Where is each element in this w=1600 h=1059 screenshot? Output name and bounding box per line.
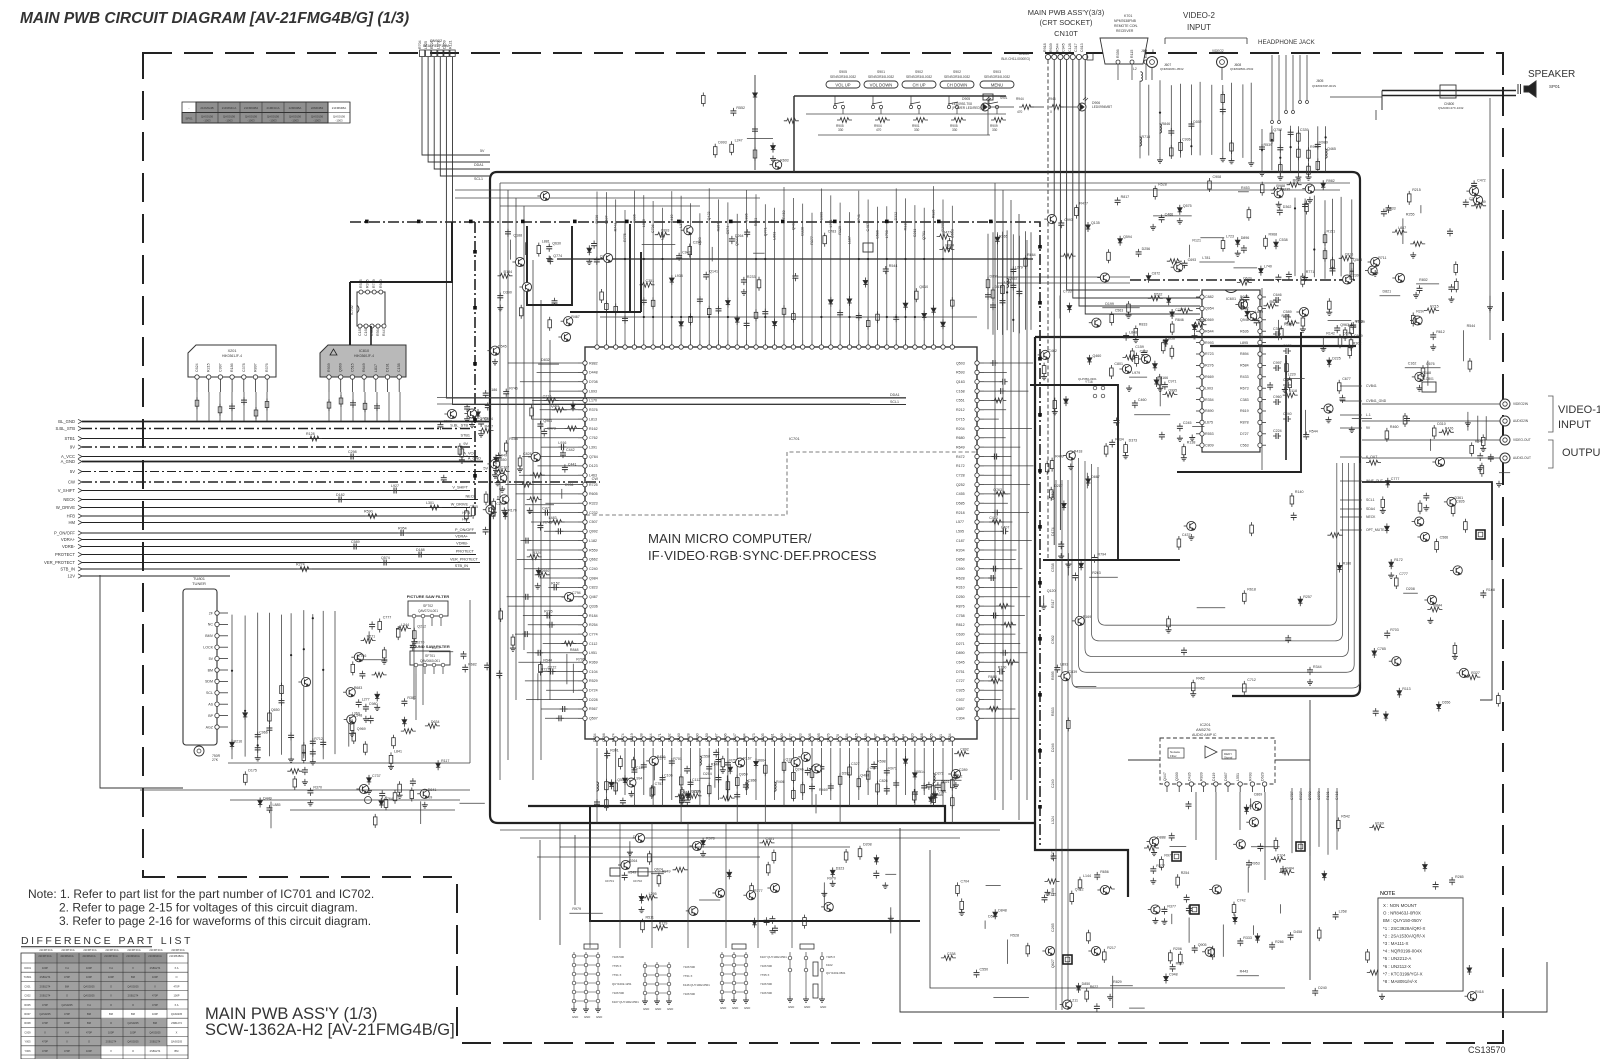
svg-text:C908: C908 xyxy=(1213,175,1222,179)
resistor R819 xyxy=(535,572,550,577)
transistor Q747 xyxy=(1271,189,1283,198)
svg-text:C589: C589 xyxy=(351,540,360,544)
resistor R608 xyxy=(1337,380,1341,394)
resistor R230 xyxy=(1327,533,1342,538)
svg-text:C186: C186 xyxy=(489,388,498,392)
capacitor C380 xyxy=(320,739,326,747)
wire xyxy=(541,708,578,710)
main bus outline xyxy=(490,172,1360,897)
wire xyxy=(984,605,1015,607)
capacitor C222 xyxy=(762,309,768,317)
resistor R804 xyxy=(1297,130,1301,144)
wire xyxy=(415,674,417,720)
svg-text:C558: C558 xyxy=(701,754,710,758)
diode D181 xyxy=(243,710,247,720)
svg-text:R829: R829 xyxy=(1113,980,1122,984)
wire xyxy=(1285,355,1287,460)
resistor R130 xyxy=(495,469,510,474)
svg-text:330: 330 xyxy=(952,128,958,132)
svg-text:C966: C966 xyxy=(259,731,268,735)
capacitor C871 xyxy=(505,229,511,237)
svg-text:C637: C637 xyxy=(873,733,877,742)
svg-text:D271: D271 xyxy=(956,642,965,646)
ground xyxy=(288,756,294,762)
resistor R840 xyxy=(1240,296,1244,310)
transistor Q664 xyxy=(1444,497,1456,506)
transistor Q858 xyxy=(528,452,540,461)
wire xyxy=(1429,439,1431,451)
inductor L333 xyxy=(1326,148,1328,159)
svg-text:R989: R989 xyxy=(1319,140,1328,144)
svg-text:C882: C882 xyxy=(1205,295,1214,299)
svg-text:Y006: Y006 xyxy=(24,1049,31,1053)
svg-text:21FM64B2A: 21FM64B2A xyxy=(169,954,184,958)
svg-text:100P: 100P xyxy=(152,1012,158,1016)
svg-text:L701: L701 xyxy=(829,219,833,227)
capacitor C733 xyxy=(560,706,568,712)
wire xyxy=(559,823,561,945)
svg-text:R235: R235 xyxy=(1282,187,1291,191)
capacitor C784 xyxy=(350,400,356,408)
svg-text:2SB1274: 2SB1274 xyxy=(40,984,51,988)
ground xyxy=(1307,679,1313,685)
svg-text:R628: R628 xyxy=(956,576,965,580)
resistor R556 xyxy=(425,723,440,728)
svg-text:QAS0205: QAS0205 xyxy=(127,1040,139,1044)
svg-text:C338: C338 xyxy=(947,952,956,956)
svg-text:Q447: Q447 xyxy=(1163,772,1167,781)
svg-text:D174: D174 xyxy=(1051,527,1055,536)
wire xyxy=(699,748,701,806)
svg-text:AUDIO2IN: AUDIO2IN xyxy=(1513,419,1529,423)
svg-text:R636: R636 xyxy=(1270,300,1279,304)
wire xyxy=(662,208,664,340)
svg-text:SF701: SF701 xyxy=(425,654,435,658)
capacitor C762 xyxy=(873,870,879,878)
ground xyxy=(1326,417,1332,423)
svg-text:C712: C712 xyxy=(1247,678,1256,682)
capacitor C631 xyxy=(288,732,294,740)
bus routing wires bottom margin xyxy=(437,398,1000,839)
wire xyxy=(589,823,591,948)
wire xyxy=(1067,480,1069,1010)
svg-text:C693: C693 xyxy=(1188,258,1197,262)
svg-text:YT01 X: YT01 X xyxy=(683,974,692,978)
ground xyxy=(1307,197,1313,203)
svg-text:X201: X201 xyxy=(228,349,237,353)
ground xyxy=(493,467,499,473)
svg-text:SOUND SAW FILTER: SOUND SAW FILTER xyxy=(410,644,450,649)
resistor R104 xyxy=(398,781,402,795)
svg-text:Q969: Q969 xyxy=(339,363,343,372)
IC601 pin xyxy=(1240,409,1266,413)
transistor Q225 xyxy=(632,833,644,842)
svg-text:R746: R746 xyxy=(509,387,518,391)
resistor R920 xyxy=(1369,825,1384,830)
svg-text:C787: C787 xyxy=(1290,791,1294,800)
capacitor C802 xyxy=(1016,288,1022,296)
capacitor C179 xyxy=(310,749,316,757)
wire xyxy=(334,611,336,754)
capacitor C544 xyxy=(716,775,722,783)
resistor R871 xyxy=(471,505,475,519)
resistor R829 xyxy=(363,400,367,412)
capacitor C899 xyxy=(641,762,647,770)
capacitor C283 xyxy=(1094,872,1100,880)
resistor R352 xyxy=(550,520,565,525)
svg-text:C892: C892 xyxy=(960,748,969,752)
svg-text:21FMT4CA: 21FMT4CA xyxy=(105,948,119,952)
svg-text:L391: L391 xyxy=(589,445,597,449)
wire xyxy=(849,212,851,340)
svg-text:SPEAKER: SPEAKER xyxy=(1528,69,1575,80)
wire xyxy=(537,371,578,373)
svg-text:D225: D225 xyxy=(1332,356,1341,360)
svg-text:R328: R328 xyxy=(686,733,690,742)
capacitor C755 xyxy=(1113,418,1119,426)
capacitor C252 xyxy=(1307,667,1313,675)
svg-text:C538: C538 xyxy=(1051,563,1055,572)
svg-text:R274: R274 xyxy=(296,563,305,567)
ground xyxy=(627,849,633,855)
wire xyxy=(522,456,578,458)
svg-text:PROTECT: PROTECT xyxy=(456,550,475,554)
wire xyxy=(1006,940,1008,964)
wire xyxy=(820,748,822,795)
svg-text:C676: C676 xyxy=(1426,362,1435,366)
wire xyxy=(839,748,841,823)
svg-text:R453: R453 xyxy=(1241,186,1250,190)
ground xyxy=(478,431,484,437)
diode D306 xyxy=(537,567,541,577)
capacitor C587 xyxy=(1072,573,1078,581)
ground xyxy=(1379,993,1385,999)
resistor R453 xyxy=(605,779,609,793)
svg-text:O: O xyxy=(132,1049,134,1053)
resistor R215 xyxy=(689,313,693,325)
picture SAW filter SF702 xyxy=(407,594,450,626)
wire xyxy=(422,626,424,705)
svg-text:2. Refer to page 2-15 for volt: 2. Refer to page 2-15 for voltages of th… xyxy=(59,901,358,915)
diode D581 xyxy=(1153,361,1157,371)
svg-text:Q465: Q465 xyxy=(1327,147,1336,151)
ground xyxy=(1041,374,1047,380)
svg-text:C240: C240 xyxy=(1051,779,1055,788)
svg-text:R297: R297 xyxy=(1416,310,1425,314)
svg-text:X: X xyxy=(44,1030,46,1034)
capacitor C576 xyxy=(591,241,597,249)
resistor R862 xyxy=(413,628,417,642)
inductor L272 xyxy=(747,779,749,790)
svg-text:C826: C826 xyxy=(879,779,888,783)
svg-text:R711: R711 xyxy=(1378,256,1386,260)
wire xyxy=(885,873,896,875)
transistor Q951 xyxy=(495,473,507,482)
wire xyxy=(505,484,578,486)
wire xyxy=(1318,788,1320,847)
resistor R393 xyxy=(1464,519,1468,533)
svg-text:L949: L949 xyxy=(499,453,507,457)
capacitor C268 xyxy=(1350,322,1356,330)
wire xyxy=(538,363,559,365)
wire xyxy=(1059,60,1061,530)
wire xyxy=(984,558,1016,560)
wire xyxy=(368,631,370,644)
capacitor C807 xyxy=(1386,205,1392,213)
capacitor C110 xyxy=(537,421,543,429)
wire xyxy=(1030,385,1180,560)
wire xyxy=(1499,472,1510,474)
svg-text:100P: 100P xyxy=(42,966,48,970)
resistor R693 xyxy=(1455,278,1459,292)
ground xyxy=(1189,435,1195,441)
resistor R288 xyxy=(465,508,469,522)
wire xyxy=(399,392,401,421)
transistor Q531 xyxy=(1171,263,1183,272)
svg-text:Q150: Q150 xyxy=(705,733,709,742)
svg-text:2SB1274: 2SB1274 xyxy=(106,1040,117,1044)
resistor R353 xyxy=(1305,201,1309,215)
wire xyxy=(512,437,578,439)
svg-text:R376: R376 xyxy=(589,408,598,412)
transistor Q925 xyxy=(1444,935,1456,944)
ground xyxy=(1427,617,1433,623)
wire xyxy=(352,392,354,421)
wire xyxy=(811,748,813,806)
svg-text:100P: 100P xyxy=(64,1021,70,1025)
capacitor C514 xyxy=(356,699,362,707)
wire xyxy=(1079,60,1200,306)
wire xyxy=(652,748,654,806)
capacitor C926 xyxy=(1283,314,1291,320)
wire xyxy=(560,846,850,848)
IC601 pin xyxy=(1196,432,1214,436)
svg-text:R310: R310 xyxy=(904,222,908,231)
wire xyxy=(890,907,892,933)
svg-text:L773: L773 xyxy=(436,41,440,49)
svg-text:X A: X A xyxy=(65,1030,69,1034)
wire xyxy=(1234,267,1258,269)
resistor R301 xyxy=(1078,877,1082,891)
svg-text:R564: R564 xyxy=(376,327,380,336)
wire xyxy=(774,208,776,340)
wire xyxy=(615,199,617,340)
IC201 pin xyxy=(1248,772,1254,792)
wire xyxy=(422,57,490,155)
svg-text:R484: R484 xyxy=(1285,866,1294,870)
svg-text:R544: R544 xyxy=(1309,430,1318,434)
resistor R835 xyxy=(265,399,269,411)
svg-text:R669: R669 xyxy=(1205,375,1214,379)
wire xyxy=(815,794,817,813)
resistor R111 xyxy=(1301,273,1305,287)
inductor L606 xyxy=(775,781,777,792)
capacitor C729 xyxy=(1220,106,1226,114)
ground xyxy=(1041,603,1047,609)
svg-text:C905: C905 xyxy=(469,505,478,509)
ground xyxy=(953,782,959,788)
svg-text:C794: C794 xyxy=(572,591,581,595)
ground xyxy=(719,997,725,1003)
ground xyxy=(366,788,372,794)
svg-text:C162: C162 xyxy=(1408,362,1417,366)
capacitor C364 xyxy=(307,788,313,796)
transistor Q105 xyxy=(1044,215,1056,224)
resistor R760 xyxy=(1350,260,1354,274)
capacitor C493 xyxy=(1480,590,1486,598)
wire xyxy=(1222,925,1224,957)
capacitor C751 xyxy=(684,797,690,805)
ground xyxy=(888,915,894,921)
capacitor C499 xyxy=(552,298,558,306)
svg-text:DDA1: DDA1 xyxy=(890,393,900,397)
svg-text:R327: R327 xyxy=(1471,671,1480,675)
transistor Q365 xyxy=(788,758,800,767)
capacitor C608 xyxy=(676,253,682,261)
svg-text:R723: R723 xyxy=(1205,352,1214,356)
svg-text:C948: C948 xyxy=(1169,973,1178,977)
svg-text:QUY1002-1251: QUY1002-1251 xyxy=(612,982,632,986)
resistor R602 xyxy=(1280,326,1284,340)
svg-text:2SB1274: 2SB1274 xyxy=(171,1021,182,1025)
svg-text:IC810: IC810 xyxy=(359,349,369,353)
resistor R191 xyxy=(378,619,382,633)
svg-text:D123: D123 xyxy=(589,464,598,468)
IC701 top pins xyxy=(595,340,955,349)
svg-text:C104: C104 xyxy=(1277,854,1286,858)
capacitor C678 xyxy=(544,613,552,619)
capacitor C743 xyxy=(1241,245,1247,253)
resistor R777 xyxy=(1144,846,1159,851)
wire rail HM xyxy=(68,518,470,526)
wire xyxy=(984,633,1015,635)
svg-text:C590: C590 xyxy=(956,567,965,571)
resistor R995 xyxy=(956,882,960,896)
sensor rail wire xyxy=(794,96,1006,172)
svg-text:C550: C550 xyxy=(980,968,989,972)
svg-text:C893: C893 xyxy=(661,229,670,233)
diode D541 xyxy=(1389,559,1393,569)
resistor R692 xyxy=(857,776,861,790)
svg-text:-1003: -1003 xyxy=(203,119,211,123)
resistor R143 xyxy=(1003,660,1018,665)
svg-text:21FMT4CA: 21FMT4CA xyxy=(171,948,185,952)
svg-text:R622: R622 xyxy=(1090,985,1099,989)
svg-text:C823: C823 xyxy=(589,586,598,590)
ground xyxy=(700,851,706,857)
capacitor C685 xyxy=(1488,454,1494,462)
wire xyxy=(1250,83,1252,160)
svg-text:D259: D259 xyxy=(442,40,446,49)
svg-text:R771: R771 xyxy=(1306,270,1315,274)
IC601 pin xyxy=(1240,443,1266,447)
wire xyxy=(428,57,490,162)
svg-text:L663: L663 xyxy=(773,232,777,240)
wire xyxy=(532,399,578,401)
capacitor C813 xyxy=(884,768,890,776)
resistor R492 xyxy=(1123,355,1138,360)
svg-text:X A: X A xyxy=(87,1003,91,1007)
wire xyxy=(1278,320,1280,340)
capacitor C145 xyxy=(772,925,778,933)
wire xyxy=(1030,232,1032,330)
capacitor C349 xyxy=(953,772,959,780)
resistor R738 xyxy=(339,395,343,407)
wire xyxy=(600,316,977,318)
svg-text:R815: R815 xyxy=(855,733,859,742)
resistor R915 xyxy=(1381,496,1385,510)
svg-text:L817: L817 xyxy=(374,364,378,372)
wire xyxy=(1247,867,1249,892)
svg-text:VOL UP: VOL UP xyxy=(835,83,850,88)
inductor L730 xyxy=(1160,123,1162,134)
svg-text:Q781: Q781 xyxy=(922,231,926,240)
capacitor C535 xyxy=(684,766,690,774)
resistor R139 xyxy=(1407,191,1411,205)
wire xyxy=(520,381,578,383)
capacitor C696 xyxy=(547,256,553,264)
IC601 pin xyxy=(1240,375,1266,379)
transistor Q391 xyxy=(1456,668,1468,677)
svg-text:C635: C635 xyxy=(1283,344,1292,348)
svg-text:R939: R939 xyxy=(327,363,331,372)
svg-text:R897: R897 xyxy=(1176,962,1185,966)
svg-text:R452: R452 xyxy=(1196,677,1205,681)
svg-text:GND: GND xyxy=(788,1005,794,1009)
wire xyxy=(1261,129,1263,170)
wire xyxy=(986,884,1001,886)
svg-text:(CRT SOCKET): (CRT SOCKET) xyxy=(1039,18,1093,27)
ground xyxy=(307,800,313,806)
svg-text:D254: D254 xyxy=(593,733,597,742)
ground xyxy=(1058,553,1064,559)
wire xyxy=(231,392,233,421)
capacitor C287 xyxy=(1192,945,1198,953)
resistor R718 xyxy=(951,777,955,791)
svg-text:R817: R817 xyxy=(1121,195,1130,199)
resistor R472 xyxy=(1270,188,1285,193)
svg-text:VIDEO-1: VIDEO-1 xyxy=(1558,404,1600,416)
resistor R923 xyxy=(932,792,936,806)
diode D442 xyxy=(686,791,690,801)
wire xyxy=(538,465,579,467)
svg-text:Q752: Q752 xyxy=(1273,128,1282,132)
wire xyxy=(508,605,578,607)
svg-text:C304: C304 xyxy=(956,717,965,721)
resistor R695 xyxy=(361,638,376,643)
wire xyxy=(933,779,961,781)
svg-text:VER_PROTECT: VER_PROTECT xyxy=(44,560,75,565)
svg-text:R418: R418 xyxy=(1074,450,1083,454)
wire xyxy=(942,200,944,341)
svg-text:Q627: Q627 xyxy=(1051,959,1055,968)
tuner pin SCL xyxy=(206,691,228,696)
svg-text:470P: 470P xyxy=(64,1049,70,1053)
resistor R594 xyxy=(365,514,380,519)
capacitor C899 xyxy=(1109,439,1115,447)
IC601 pin xyxy=(1240,363,1266,367)
capacitor C793 xyxy=(998,388,1006,394)
svg-text:*8 : MA8091/H/-X: *8 : MA8091/H/-X xyxy=(1383,979,1417,984)
module X201 xyxy=(188,345,276,392)
wire xyxy=(933,186,935,340)
transistor Q236 xyxy=(483,505,495,514)
svg-text:J60: J60 xyxy=(1141,49,1147,53)
svg-text:Q247: Q247 xyxy=(733,733,737,742)
wire xyxy=(244,616,246,757)
wire xyxy=(984,465,1034,467)
wire xyxy=(764,204,766,340)
